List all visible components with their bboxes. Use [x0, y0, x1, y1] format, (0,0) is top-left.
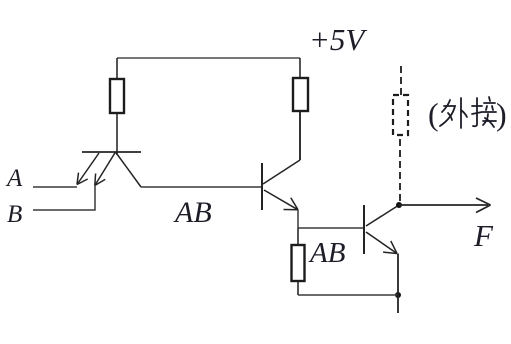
wire: +5V top rail: [117, 57, 300, 59]
svg-text:A: A: [5, 165, 23, 192]
glyph 接: [472, 97, 496, 127]
svg-text:AB: AB: [173, 196, 212, 229]
wire: Q1 collector to Q2 base: [141, 186, 262, 188]
external pull-up resistor (dashed): [393, 95, 408, 135]
svg-text:(: (: [428, 96, 439, 132]
wire: Q3 emitter down to bottom node: [397, 254, 399, 296]
svg-text:): ): [496, 96, 507, 132]
resistor R3: [292, 228, 305, 295]
wire: stub below bottom node: [397, 295, 399, 313]
label (外接) external: [428, 96, 507, 132]
wire: input B: [33, 185, 95, 210]
glyph 外: [440, 98, 467, 128]
node: bottom junction: [395, 292, 401, 298]
wire: Q2 emitter to Q3 base: [298, 210, 364, 228]
svg-text:B: B: [7, 201, 22, 228]
wire: dashed above external resistor: [400, 62, 402, 95]
transistor Q1 (multi-emitter input): [77, 152, 141, 187]
wire: output lead with arrow: [399, 198, 491, 213]
wire: bottom rail R3 to node: [298, 294, 398, 296]
resistor R2: [293, 58, 308, 160]
wire: input A: [33, 186, 77, 188]
wire: dashed from node to external resistor: [399, 135, 401, 201]
svg-text:F: F: [473, 218, 494, 253]
node: output junction: [396, 202, 402, 208]
transistor Q2: [262, 160, 300, 210]
transistor Q3: [364, 205, 399, 254]
svg-text:AB: AB: [308, 237, 346, 269]
resistor R1: [110, 58, 124, 155]
svg-text:+5V: +5V: [309, 22, 367, 57]
